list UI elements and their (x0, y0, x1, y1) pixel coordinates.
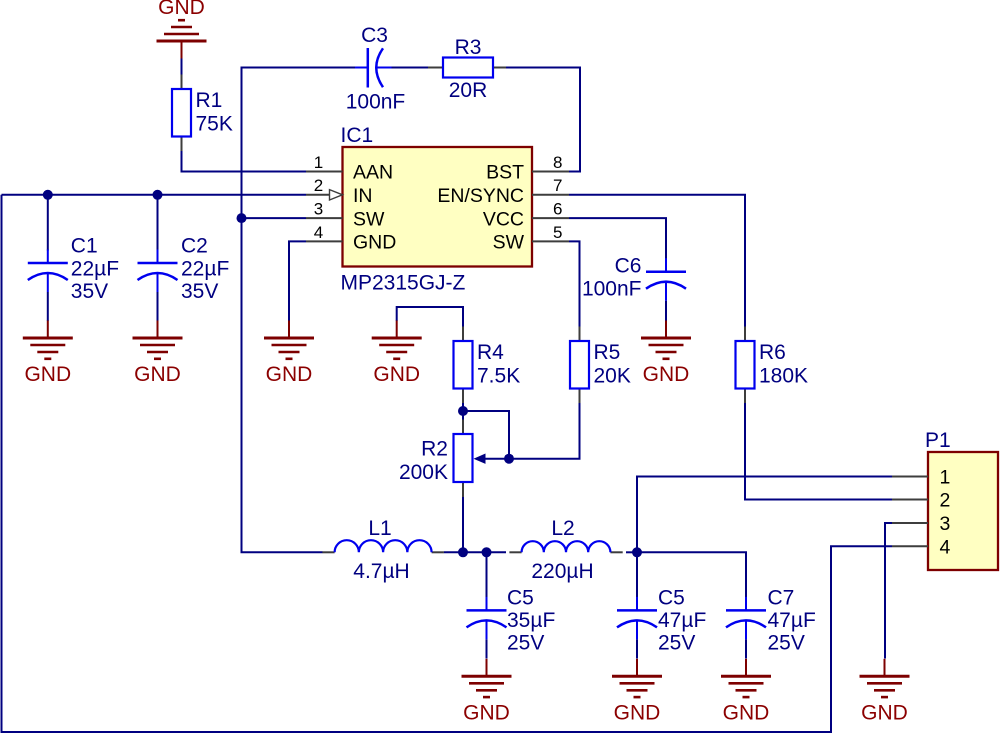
wire C2 bottom lead to ground (157, 292, 159, 321)
svg-text:1: 1 (940, 467, 951, 489)
capacitor C7 (726, 587, 816, 655)
svg-text:SW: SW (493, 232, 525, 254)
svg-text:R6: R6 (759, 341, 786, 364)
node junction IN rail / C2 (153, 190, 163, 200)
svg-text:GND: GND (643, 363, 690, 386)
svg-text:GND: GND (373, 363, 420, 386)
wire C5 (35uF) top lead to L1 node (486, 552, 488, 597)
ground GND (at R4) (372, 321, 422, 387)
wire IC1 pin 7 EN/SYNC to R6 top (569, 195, 745, 327)
svg-text:220µH: 220µH (531, 560, 593, 583)
node VOUT junction (L2/C5/P1) (632, 547, 642, 557)
wire R1 bottom to IC1 pin 1 (182, 151, 307, 172)
resistor R1 (172, 75, 233, 152)
svg-text:22µF: 22µF (71, 258, 119, 281)
svg-text:GND: GND (861, 701, 908, 724)
svg-text:47µF: 47µF (768, 609, 816, 632)
node FB junction (R4/R2) (458, 406, 468, 416)
wire C2 top lead to IN rail (157, 195, 159, 251)
connector P1 body (928, 452, 998, 570)
svg-text:C5: C5 (507, 587, 534, 610)
svg-text:25V: 25V (658, 632, 695, 655)
svg-text:MP2315GJ-Z: MP2315GJ-Z (341, 272, 466, 295)
wire C1 top lead to IN rail (47, 195, 49, 251)
wire R6 bottom to P1 pin 2 (745, 403, 892, 500)
svg-text:4: 4 (940, 537, 951, 559)
IC1 pin 1 stub (306, 171, 343, 173)
svg-text:22µF: 22µF (181, 258, 229, 281)
svg-text:47µF: 47µF (658, 609, 706, 632)
IC1 pin 6 stub (532, 217, 569, 219)
wire GND1 to R1 top (181, 59, 183, 75)
IC1 pin 2 stub (306, 194, 343, 196)
ground GND (top, above R1) (157, 0, 207, 58)
svg-text:1: 1 (314, 153, 323, 172)
svg-text:100nF: 100nF (582, 278, 642, 301)
svg-text:C2: C2 (181, 235, 208, 258)
svg-text:35V: 35V (181, 280, 218, 303)
wire R2 bottom to L1 output node (462, 497, 464, 552)
wire C5 (47uF) top lead to output node (636, 552, 638, 597)
inductor L2 (509, 517, 622, 583)
svg-text:C1: C1 (71, 235, 98, 258)
svg-text:GND: GND (158, 0, 205, 19)
wire R5 bottom to R2 wiper (485, 403, 580, 459)
svg-text:IN: IN (353, 185, 373, 207)
IC1 pin 2 input direction triangle (330, 190, 343, 200)
svg-text:35µF: 35µF (507, 609, 555, 632)
P1 pin 1 stub (892, 476, 928, 478)
svg-text:R4: R4 (477, 341, 504, 364)
potentiometer R2 (399, 420, 486, 498)
svg-text:5: 5 (553, 223, 562, 242)
svg-text:180K: 180K (759, 365, 808, 388)
wire P1 pin 3 to ground symbol (885, 523, 892, 659)
svg-text:BST: BST (486, 162, 524, 184)
resistor R6 (736, 327, 809, 404)
svg-text:20R: 20R (449, 79, 488, 102)
ground GND (under C7) (721, 659, 771, 725)
wire L1 right to L2 left (SW-out node) (444, 551, 506, 553)
svg-text:3: 3 (940, 513, 951, 535)
wire C5 (35uF) bottom lead to ground (486, 640, 488, 659)
wire R4 bottom / R2 top node FB (462, 403, 464, 420)
wire C6 bottom lead to ground (665, 301, 667, 321)
IC1 pin 8 stub (532, 171, 569, 173)
node junction C5 35µF tap (482, 547, 492, 557)
wire node SW riser up and over to C3 left (242, 68, 356, 219)
svg-text:2: 2 (940, 490, 951, 512)
wire VIN loop: left edge down, along bottom, up to P1 pin 4 (2, 195, 893, 732)
svg-text:200K: 200K (399, 461, 448, 484)
node junction wiper / R5 (504, 454, 514, 464)
capacitor C6 (582, 255, 686, 301)
wire L2 right to output node (626, 551, 637, 553)
wire IC1 pin 4 GND to ground symbol (289, 241, 306, 321)
wire node FB over to wiper junction (463, 411, 509, 459)
svg-text:GND: GND (24, 363, 71, 386)
svg-text:GND: GND (266, 363, 313, 386)
op-amp/regulator IC1 MP2315GJ-Z body (343, 147, 533, 267)
capacitor C1 (28, 235, 119, 303)
P1 pin 3 stub (892, 522, 928, 524)
IC1 pin 3 stub (306, 217, 343, 219)
svg-text:7.5K: 7.5K (477, 365, 520, 388)
svg-text:C6: C6 (615, 255, 642, 278)
capacitor C5 (47µF) (617, 587, 706, 655)
svg-text:GND: GND (614, 701, 661, 724)
svg-text:75K: 75K (196, 113, 233, 136)
svg-text:25V: 25V (507, 632, 544, 655)
resistor R5 (570, 327, 631, 404)
ground GND (under C1) (23, 321, 73, 387)
IC1 pin 5 stub (532, 240, 569, 242)
wire output node to C7 top (637, 552, 746, 598)
node SW junction (237, 213, 247, 223)
svg-text:20K: 20K (594, 365, 631, 388)
svg-text:R1: R1 (196, 89, 223, 112)
svg-text:8: 8 (553, 153, 562, 172)
svg-text:AAN: AAN (353, 162, 393, 184)
ground GND (P1 pin 3) (860, 659, 910, 725)
svg-text:SW: SW (353, 208, 385, 230)
svg-text:2: 2 (314, 176, 323, 195)
wire IN rail from left edge to IC1 pin 2 (2, 194, 307, 196)
svg-text:R2: R2 (421, 437, 448, 460)
svg-text:GND: GND (134, 363, 181, 386)
wire output node up to P1 pin 1 (637, 477, 892, 553)
svg-text:35V: 35V (71, 280, 108, 303)
inductor L1 (322, 517, 444, 583)
svg-text:4.7µH: 4.7µH (353, 560, 409, 583)
wire C7 bottom lead to ground (745, 640, 747, 659)
wire IC1 pin 6 VCC to C6 top (569, 218, 666, 258)
svg-text:P1: P1 (925, 429, 951, 452)
capacitor C3 (346, 24, 406, 114)
svg-text:L1: L1 (368, 517, 391, 540)
ground GND (IC1 pin 4) (264, 321, 314, 387)
resistor R3 (428, 36, 506, 102)
svg-text:R3: R3 (455, 36, 482, 59)
wire node SW riser down to L1 left (242, 218, 323, 552)
svg-text:IC1: IC1 (341, 124, 374, 147)
capacitor C2 (138, 235, 230, 303)
svg-text:L2: L2 (551, 517, 574, 540)
svg-text:C7: C7 (768, 587, 795, 610)
svg-text:VCC: VCC (483, 208, 524, 230)
capacitor C5 (35µF) (467, 587, 556, 655)
ground GND (under C6) (641, 321, 691, 387)
ground GND (under C2) (133, 321, 183, 387)
svg-text:GND: GND (353, 232, 396, 254)
svg-text:EN/SYNC: EN/SYNC (437, 185, 524, 207)
node junction L1 / R2 (458, 547, 468, 557)
svg-text:C5: C5 (658, 587, 685, 610)
svg-text:GND: GND (723, 701, 770, 724)
wire R3 right down to IC1 pin 8 BST (506, 68, 580, 172)
svg-text:6: 6 (553, 200, 562, 219)
IC1 pin 4 stub (306, 240, 343, 242)
svg-text:25V: 25V (768, 632, 805, 655)
P1 pin 2 stub (892, 499, 928, 501)
wire C3 right to R3 left (392, 67, 429, 69)
wire IC1 pin 5 SW to R5 top (569, 241, 580, 327)
IC1 pin 7 stub (532, 194, 569, 196)
wire C5 (47uF) bottom lead to ground (636, 640, 638, 659)
wire C1 bottom lead to ground (47, 292, 49, 321)
wire ground to R4 top (397, 307, 463, 327)
P1 pin 4 stub (892, 545, 928, 547)
svg-text:7: 7 (553, 176, 562, 195)
svg-text:3: 3 (314, 200, 323, 219)
node junction IN rail / C1 (43, 190, 53, 200)
svg-text:100nF: 100nF (346, 91, 406, 114)
svg-text:C3: C3 (361, 24, 388, 47)
svg-text:4: 4 (314, 223, 323, 242)
wire IC1 pin 3 to node SW (242, 217, 307, 219)
ground GND (under C5 47µF) (612, 659, 662, 725)
svg-text:R5: R5 (594, 341, 621, 364)
ground GND (under C5 35µF) (462, 659, 512, 725)
svg-text:GND: GND (463, 701, 510, 724)
resistor R4 (454, 327, 521, 404)
